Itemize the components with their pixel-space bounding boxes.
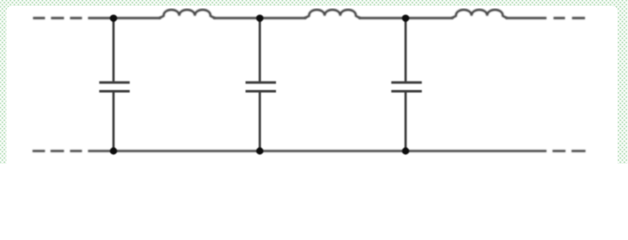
wire: shunt branch 2 vertical xyxy=(259,18,261,151)
node: bottom bus / branch 1 junction xyxy=(110,147,117,154)
node: top bus / branch 1 junction xyxy=(110,15,117,22)
wire: top bus right dashed lead-out xyxy=(554,17,586,19)
node: top bus / branch 2 junction xyxy=(256,15,263,22)
capacitor C3 xyxy=(391,83,422,92)
dotted green border texture xyxy=(0,0,628,164)
inductor L2 xyxy=(305,10,360,18)
capacitor C2 xyxy=(246,83,277,92)
wire: shunt branch 3 vertical xyxy=(404,18,406,151)
wire: bottom bus left dashed lead-in xyxy=(33,150,83,152)
wire: top bus solid segments xyxy=(88,17,547,19)
wire: bottom bus right dashed lead-out xyxy=(553,150,586,152)
node: bottom bus / branch 3 junction xyxy=(402,147,409,154)
node: top bus / branch 3 junction xyxy=(402,15,409,22)
inductor L3 xyxy=(452,10,507,18)
wire: shunt branch 1 vertical xyxy=(112,18,114,151)
white schematic panel xyxy=(6,6,617,164)
node: bottom bus / branch 2 junction xyxy=(256,147,263,154)
wire: top bus left dashed lead-in xyxy=(33,17,82,19)
inductor L1 xyxy=(160,10,215,18)
wire: bottom bus solid xyxy=(88,150,547,152)
capacitor C1 xyxy=(99,83,130,92)
